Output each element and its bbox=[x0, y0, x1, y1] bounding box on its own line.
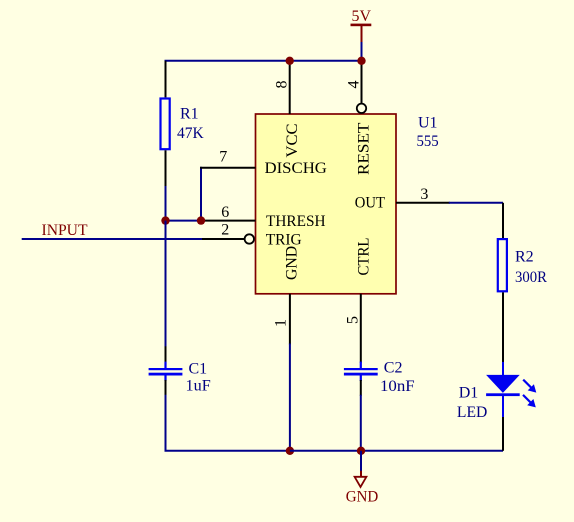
wire C2 to ground rail bbox=[360, 395, 362, 451]
power 5V bbox=[351, 8, 372, 42]
wire R1 to node A bbox=[165, 186, 167, 222]
label R2 bbox=[515, 248, 534, 265]
svg-text:CTRL: CTRL bbox=[356, 238, 373, 276]
pin number 5 bbox=[345, 316, 362, 324]
svg-text:LED: LED bbox=[457, 404, 487, 421]
svg-text:5: 5 bbox=[345, 316, 362, 324]
wire 5V to rail bbox=[361, 41, 363, 61]
wire C2 bottom pin bbox=[360, 380, 362, 396]
wire ground rail bbox=[290, 450, 503, 452]
pin 5 CTRL bbox=[360, 294, 362, 363]
pin number 3 bbox=[420, 186, 428, 203]
pin 8 VCC bbox=[289, 61, 291, 114]
U1 pin name VCC bbox=[284, 124, 301, 158]
diode D1 LED bbox=[486, 362, 536, 418]
U1 pin name DISCHG bbox=[265, 160, 328, 177]
svg-text:10nF: 10nF bbox=[380, 378, 415, 395]
svg-text:8: 8 bbox=[274, 81, 291, 89]
label INPUT bbox=[42, 222, 88, 239]
svg-text:R1: R1 bbox=[180, 106, 199, 123]
svg-text:5V: 5V bbox=[352, 8, 372, 25]
pin number 4 bbox=[346, 81, 363, 89]
wire GND stub bbox=[360, 451, 362, 472]
svg-text:U1: U1 bbox=[418, 114, 438, 131]
U1 pin name RESET bbox=[356, 122, 373, 175]
U1 pin name CTRL bbox=[356, 238, 373, 276]
svg-text:C2: C2 bbox=[384, 360, 403, 377]
svg-text:RESET: RESET bbox=[356, 122, 373, 175]
junction ground rail pin 1 bbox=[286, 447, 294, 455]
node B junction bbox=[197, 216, 205, 224]
pin number 7 bbox=[219, 149, 227, 166]
value 1uF bbox=[186, 378, 211, 395]
svg-text:1: 1 bbox=[273, 319, 290, 327]
wire pin 1 to ground rail bbox=[289, 344, 291, 451]
ground bbox=[346, 471, 379, 506]
pin number 2 bbox=[221, 221, 229, 238]
value 10nF bbox=[380, 378, 415, 395]
junction ground rail GND bbox=[357, 447, 365, 455]
svg-text:GND: GND bbox=[346, 488, 379, 505]
resistor R2 bbox=[498, 239, 507, 291]
wire R1 bottom pin bbox=[165, 150, 167, 187]
value LED bbox=[457, 404, 487, 421]
value 47K bbox=[177, 125, 204, 142]
wire OUT to R2 bbox=[449, 202, 503, 204]
svg-text:OUT: OUT bbox=[355, 195, 385, 212]
U1 pin name TRIG bbox=[266, 231, 302, 248]
wire C1 top pin bbox=[165, 346, 167, 362]
value 555 bbox=[417, 133, 439, 150]
svg-text:555: 555 bbox=[417, 133, 439, 150]
wire R1 top drop bbox=[165, 61, 167, 98]
svg-text:300R: 300R bbox=[515, 269, 547, 286]
pin 1 GND bbox=[289, 294, 291, 345]
wire node A to C1 bbox=[165, 221, 167, 347]
svg-text:4: 4 bbox=[346, 81, 363, 89]
pin number 8 bbox=[274, 81, 291, 89]
wire LED cathode to ground rail bbox=[502, 417, 504, 451]
pin 3 OUT bbox=[396, 202, 450, 204]
wire C1 bottom pin bbox=[165, 380, 167, 396]
wire R2 bottom pin bbox=[502, 292, 504, 362]
label R1 bbox=[180, 106, 199, 123]
wire node A to node B bbox=[166, 220, 202, 222]
svg-text:R2: R2 bbox=[515, 248, 534, 265]
pin 2 TRIG bbox=[202, 234, 254, 243]
wire DISCHG drop bbox=[200, 167, 202, 221]
junction VCC rail pin 8 bbox=[286, 57, 294, 65]
resistor R1 bbox=[161, 99, 170, 150]
svg-text:3: 3 bbox=[420, 186, 428, 203]
svg-text:C1: C1 bbox=[189, 361, 208, 378]
svg-text:VCC: VCC bbox=[284, 124, 301, 158]
IC U1 555 body bbox=[256, 114, 397, 294]
svg-text:1uF: 1uF bbox=[186, 378, 211, 395]
junction VCC rail pin 4 bbox=[357, 57, 365, 65]
pin 6 THRESH bbox=[201, 220, 256, 222]
svg-text:7: 7 bbox=[219, 149, 227, 166]
svg-text:D1: D1 bbox=[459, 384, 479, 401]
label C2 bbox=[384, 360, 403, 377]
label C1 bbox=[189, 361, 208, 378]
wire VCC top rail bbox=[165, 60, 362, 62]
label U1 bbox=[418, 114, 438, 131]
pin number 6 bbox=[221, 204, 229, 221]
svg-text:47K: 47K bbox=[177, 125, 204, 142]
svg-text:GND: GND bbox=[284, 246, 301, 280]
svg-text:THRESH: THRESH bbox=[266, 213, 326, 230]
svg-text:2: 2 bbox=[221, 221, 229, 238]
capacitor C1 bbox=[149, 362, 183, 381]
svg-text:DISCHG: DISCHG bbox=[265, 160, 328, 177]
U1 pin name GND bbox=[284, 246, 301, 280]
capacitor C2 bbox=[344, 362, 378, 381]
svg-text:6: 6 bbox=[221, 204, 229, 221]
wire INPUT bbox=[22, 238, 203, 240]
node A junction bbox=[161, 216, 169, 224]
U1 pin name THRESH bbox=[266, 213, 326, 230]
pin number 1 bbox=[273, 319, 290, 327]
value 300R bbox=[515, 269, 547, 286]
svg-text:INPUT: INPUT bbox=[42, 222, 88, 239]
wire R2 top pin bbox=[502, 203, 504, 238]
wire C1 to ground rail bbox=[166, 395, 291, 451]
pin 4 RESET bbox=[357, 61, 366, 113]
U1 pin name OUT bbox=[355, 195, 385, 212]
pin 7 DISCHG bbox=[200, 167, 256, 169]
label D1 bbox=[459, 384, 479, 401]
